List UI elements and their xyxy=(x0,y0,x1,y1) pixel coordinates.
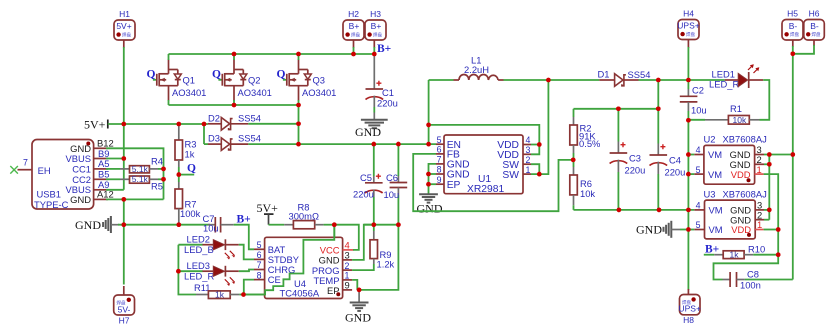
wire staircase VCC to R11 xyxy=(244,225,335,295)
wire 5V+ to D3 branch xyxy=(203,124,205,144)
wire R9 to PROG xyxy=(352,264,374,270)
pin 9 EP xyxy=(436,183,444,185)
wire H4 to UPS+ rail xyxy=(687,47,689,80)
svg-text:B9: B9 xyxy=(98,148,109,159)
capacitor C3 220u xyxy=(610,109,646,210)
wire UPS+ drop to R2 line xyxy=(657,80,659,109)
svg-text:SW: SW xyxy=(502,170,519,181)
wire LED3 to CHRG xyxy=(239,270,254,272)
pin 5 BAT xyxy=(254,248,265,250)
svg-text:UPS+: UPS+ xyxy=(678,304,700,314)
svg-text:H1: H1 xyxy=(119,9,130,19)
svg-text:B+: B+ xyxy=(371,21,382,31)
diode D3 SS54 xyxy=(208,133,261,151)
node 5V+ port left xyxy=(84,117,108,131)
wire VM column xyxy=(687,120,689,229)
wire B+ to BAT xyxy=(234,225,254,250)
svg-text:H6: H6 xyxy=(809,9,820,19)
svg-text:H8: H8 xyxy=(683,315,694,325)
svg-text:VBUS: VBUS xyxy=(65,153,91,164)
wire R2 C3 C4 top line xyxy=(574,108,659,110)
wire gnd pins column xyxy=(768,155,770,220)
svg-text:C5: C5 xyxy=(360,172,372,183)
wire CE to R11 node xyxy=(244,280,254,295)
pin 2 PROG xyxy=(343,269,353,271)
svg-text:B+: B+ xyxy=(349,21,360,31)
wire GND rail left xyxy=(118,224,210,226)
svg-text:GND: GND xyxy=(345,311,371,325)
svg-text:2: 2 xyxy=(526,155,531,165)
svg-text:VM: VM xyxy=(708,169,722,180)
svg-text:D1: D1 xyxy=(598,68,610,79)
svg-text:Q2: Q2 xyxy=(248,75,261,86)
svg-text:9: 9 xyxy=(345,280,350,291)
capacitor C7 10u xyxy=(203,213,234,234)
resistor R8 300mOhm xyxy=(269,201,335,229)
svg-text:1: 1 xyxy=(757,219,762,230)
ground GND u1 xyxy=(417,194,443,215)
svg-text:B+: B+ xyxy=(705,243,719,255)
ic U3 XB7608AJ xyxy=(694,189,767,239)
svg-text:1k: 1k xyxy=(730,250,740,260)
svg-text:7: 7 xyxy=(257,260,262,270)
pin 2 SW xyxy=(523,163,531,165)
svg-text:8: 8 xyxy=(437,165,442,175)
svg-text:1.2k: 1.2k xyxy=(377,259,395,270)
capacitor C6 10u xyxy=(384,144,408,225)
ic U4 TC4056A xyxy=(254,237,354,298)
svg-text:EH: EH xyxy=(38,165,51,176)
pin 4 VM xyxy=(694,154,704,156)
svg-text:焊盘: 焊盘 xyxy=(790,31,799,38)
svg-text:LED_B: LED_B xyxy=(184,244,214,255)
svg-text:1: 1 xyxy=(757,164,762,175)
inductor L1 2.2uH xyxy=(429,55,549,81)
svg-text:10u: 10u xyxy=(691,105,707,116)
led LED2 LED_B xyxy=(184,234,239,260)
svg-text:UPS+: UPS+ xyxy=(677,20,699,30)
svg-text:C6: C6 xyxy=(386,172,398,183)
svg-text:GND: GND xyxy=(636,223,662,237)
wire U2 vm5 xyxy=(688,173,694,175)
svg-text:Q: Q xyxy=(147,68,156,80)
wire VBUS B9 xyxy=(106,158,124,160)
wire LED anode rail xyxy=(178,244,202,246)
wire B12 GND to riser xyxy=(106,148,164,199)
flag H3 B+ xyxy=(365,9,386,48)
pin 8 CE xyxy=(254,279,265,281)
pin B5 xyxy=(94,178,108,180)
capacitor C8 100n xyxy=(723,269,761,291)
svg-text:6: 6 xyxy=(437,145,442,155)
wire D3 cathode rail VIN xyxy=(248,143,436,145)
wire VDD3 xyxy=(531,145,539,155)
transistor Q1 AO3401 xyxy=(147,54,207,105)
wire H8 column xyxy=(687,230,689,291)
wire LED2 to STDBY xyxy=(239,245,254,260)
svg-text:100k: 100k xyxy=(180,208,201,219)
svg-text:5V+: 5V+ xyxy=(116,21,131,31)
svg-text:A5: A5 xyxy=(98,158,109,169)
pin 1 SW xyxy=(523,173,531,175)
ground GND u4 xyxy=(345,290,371,325)
svg-text:D3: D3 xyxy=(208,133,220,144)
svg-text:GND: GND xyxy=(355,125,381,139)
wire SW1 to SW column xyxy=(531,80,548,174)
svg-text:7: 7 xyxy=(437,155,442,165)
wire U3 vdd xyxy=(764,229,779,231)
wire GND line C5 R9 C6 pin3 xyxy=(364,224,398,226)
pin 4 VM xyxy=(694,209,704,211)
flag H1 5V+ xyxy=(114,9,135,48)
svg-text:TYPE-C: TYPE-C xyxy=(34,199,69,210)
wire TEMP to EP node xyxy=(352,280,357,290)
capacitor C2 10u xyxy=(680,80,707,120)
wire B- column xyxy=(792,54,794,280)
pin 5 EN xyxy=(436,143,444,145)
ic U2 XB7608AJ xyxy=(694,134,767,185)
svg-text:1k: 1k xyxy=(185,149,195,160)
pin 4 VDD xyxy=(523,144,531,146)
pin 8 GND xyxy=(436,173,444,175)
svg-text:H2: H2 xyxy=(348,9,359,19)
wire U3 vm5 xyxy=(688,229,694,231)
svg-text:R4: R4 xyxy=(151,156,163,167)
wire C8 to B- xyxy=(745,279,793,281)
wire U3 gnd pins xyxy=(764,209,769,211)
resistor R11 1k xyxy=(194,282,246,299)
flag H2 B+ xyxy=(343,9,364,48)
flag H5 B- xyxy=(782,9,803,48)
wire B+ top rail xyxy=(169,53,375,55)
svg-text:H7: H7 xyxy=(119,316,130,326)
svg-text:Q: Q xyxy=(277,68,286,80)
resistor R7 100k xyxy=(175,175,201,225)
wire SW node to D1 xyxy=(548,79,599,81)
svg-text:10u: 10u xyxy=(384,189,400,200)
svg-text:C4: C4 xyxy=(669,155,681,166)
resistor R4 5.1k xyxy=(106,156,166,174)
svg-text:5V+: 5V+ xyxy=(257,201,279,215)
wire 5V+ row xyxy=(108,123,208,125)
wire UPS+ rail xyxy=(639,79,725,81)
diode D2 SS54 xyxy=(208,112,261,130)
pin A5 xyxy=(94,168,108,170)
pin B12 xyxy=(94,147,108,149)
wire FB wrap to divider xyxy=(413,154,573,211)
svg-text:220u: 220u xyxy=(377,98,398,109)
svg-text:3: 3 xyxy=(345,250,350,261)
wire U2 vdd down xyxy=(764,174,779,255)
wire U2 vm4 xyxy=(688,154,694,156)
svg-text:9: 9 xyxy=(437,175,442,185)
svg-text:U3: U3 xyxy=(704,189,716,200)
svg-text:VM: VM xyxy=(709,224,723,235)
pin 3 GND xyxy=(343,259,353,261)
svg-text:8: 8 xyxy=(257,270,262,280)
svg-text:AO3401: AO3401 xyxy=(238,87,272,98)
svg-text:C2: C2 xyxy=(692,85,704,96)
resistor R2 91K 0.5% xyxy=(570,109,601,160)
pin 2 GND xyxy=(755,219,764,221)
svg-text:H3: H3 xyxy=(370,9,381,19)
ground GND c1 xyxy=(355,120,388,139)
pin 5 VM xyxy=(694,229,704,231)
svg-text:焊盘: 焊盘 xyxy=(812,31,821,38)
wire H3 stub xyxy=(373,47,375,54)
led LED1 LED_R xyxy=(709,64,763,89)
capacitor C1 220u xyxy=(366,56,398,120)
wire VIN to EN xyxy=(428,80,430,144)
led LED3 LED_R xyxy=(184,260,239,286)
svg-text:B+: B+ xyxy=(377,43,391,55)
resistor R1 10k xyxy=(688,103,759,125)
wire VDD wrap to C8 xyxy=(714,255,779,280)
svg-text:VDD: VDD xyxy=(731,224,751,235)
svg-text:CE: CE xyxy=(268,274,281,285)
svg-text:Q1: Q1 xyxy=(183,75,196,86)
svg-text:焊盘: 焊盘 xyxy=(686,31,695,38)
svg-text:焊盘: 焊盘 xyxy=(351,31,360,38)
svg-text:10u: 10u xyxy=(203,223,219,234)
capacitor C4 220u xyxy=(650,109,686,210)
pin B9 xyxy=(94,158,108,160)
pin 1 VDD xyxy=(755,173,764,175)
wire A12 GND xyxy=(106,198,164,200)
pin 2 GND xyxy=(755,163,764,165)
svg-text:10k: 10k xyxy=(580,188,595,199)
svg-text:Q: Q xyxy=(187,163,196,175)
svg-text:220u: 220u xyxy=(353,189,374,200)
svg-text:3: 3 xyxy=(526,145,531,155)
transistor Q3 AO3401 xyxy=(277,54,337,105)
svg-text:EP: EP xyxy=(327,285,340,296)
svg-text:TC4056A: TC4056A xyxy=(280,288,320,299)
svg-text:Q3: Q3 xyxy=(313,75,326,86)
svg-text:7: 7 xyxy=(23,158,28,168)
wire VBUS column B9-A9 xyxy=(123,124,125,190)
pin 6 STDBY xyxy=(254,258,265,260)
svg-text:5: 5 xyxy=(696,165,701,175)
svg-text:B-: B- xyxy=(789,21,798,31)
pin A12 xyxy=(94,198,108,200)
flag H6 B- xyxy=(804,9,825,47)
svg-text:5.1k: 5.1k xyxy=(132,174,149,184)
svg-text:LED2: LED2 xyxy=(187,234,210,245)
diode D1 SS54 xyxy=(598,68,651,86)
wire staircase overlay xyxy=(244,225,335,295)
node Q label xyxy=(177,163,197,177)
wire U4 GND pin3 riser xyxy=(352,225,374,260)
ground GND usb xyxy=(75,216,119,233)
svg-text:1k: 1k xyxy=(215,289,225,299)
svg-text:5: 5 xyxy=(696,220,701,230)
svg-text:EP: EP xyxy=(447,180,461,191)
resistor R5 5.1k xyxy=(106,174,166,191)
wire H2 stub xyxy=(353,47,355,54)
svg-text:C3: C3 xyxy=(629,153,641,164)
pin 4 VCC xyxy=(343,249,354,251)
svg-text:U2: U2 xyxy=(704,134,716,145)
svg-text:5V-: 5V- xyxy=(118,305,131,315)
svg-text:VM: VM xyxy=(708,149,722,160)
svg-text:5.1k: 5.1k xyxy=(132,164,149,174)
pin 3 VDD xyxy=(523,153,531,155)
svg-text:AO3401: AO3401 xyxy=(172,87,206,98)
flag H7 5V- xyxy=(114,286,135,326)
svg-text:H4: H4 xyxy=(683,9,694,19)
wire H5 stub xyxy=(792,46,794,54)
pin 7 CHRG xyxy=(254,269,265,271)
svg-text:CC2: CC2 xyxy=(72,174,91,185)
connector USB1 TYPE-C xyxy=(10,138,113,210)
capacitor C5 220u xyxy=(353,144,383,225)
svg-text:SS54: SS54 xyxy=(628,69,651,80)
resistor R6 10k xyxy=(570,160,596,210)
svg-text:220u: 220u xyxy=(625,165,646,176)
wire Q source rail xyxy=(169,104,299,106)
pin 5 VM xyxy=(694,173,704,175)
svg-text:GND: GND xyxy=(75,218,101,232)
svg-text:焊盘: 焊盘 xyxy=(373,31,382,38)
wire GND column to rail xyxy=(123,199,125,284)
svg-text:C1: C1 xyxy=(382,87,394,98)
pin A9 xyxy=(94,189,108,191)
pin 1 TEMP xyxy=(343,279,353,281)
svg-text:VM: VM xyxy=(709,205,723,216)
svg-text:R10: R10 xyxy=(748,244,765,255)
svg-text:300mΩ: 300mΩ xyxy=(289,211,319,222)
resistor R9 1.2k xyxy=(370,225,395,270)
svg-text:5: 5 xyxy=(257,240,262,250)
wire A9 xyxy=(106,189,124,191)
svg-text:B5: B5 xyxy=(98,169,109,180)
pin 7 GND xyxy=(436,163,444,165)
svg-text:XB7608AJ: XB7608AJ xyxy=(723,134,767,145)
svg-text:AO3401: AO3401 xyxy=(302,87,336,98)
wire H1 to 5V+ node xyxy=(123,47,125,124)
svg-text:B+: B+ xyxy=(237,214,251,226)
svg-text:D2: D2 xyxy=(208,112,220,123)
svg-text:4: 4 xyxy=(526,135,531,145)
svg-text:5: 5 xyxy=(437,135,442,145)
svg-text:H5: H5 xyxy=(787,9,798,19)
svg-text:VDD: VDD xyxy=(731,169,751,180)
flag H4 UPS+ xyxy=(677,9,699,49)
junction dots overlay xyxy=(122,52,796,297)
svg-text:220u: 220u xyxy=(665,167,686,178)
pin 7 EH shield xyxy=(18,169,33,171)
node EP junction xyxy=(357,288,362,293)
svg-text:0.5%: 0.5% xyxy=(579,138,600,149)
resistor R10 1k xyxy=(704,244,778,260)
svg-text:10k: 10k xyxy=(733,115,747,125)
wire VDD branch xyxy=(429,125,540,145)
svg-text:CC1: CC1 xyxy=(72,163,91,174)
wire R8 out to VCC xyxy=(334,225,359,250)
flag H8 UPS+ xyxy=(678,289,700,325)
svg-text:XB7608AJ: XB7608AJ xyxy=(723,189,767,200)
svg-text:B-: B- xyxy=(810,21,819,31)
ic U1 XR2981 xyxy=(436,135,531,195)
ground GND u3 area xyxy=(636,221,688,238)
svg-text:5V+: 5V+ xyxy=(84,117,106,131)
svg-text:4: 4 xyxy=(696,145,701,155)
svg-text:100n: 100n xyxy=(740,280,761,291)
svg-text:焊盘: 焊盘 xyxy=(122,31,131,38)
svg-text:R1: R1 xyxy=(730,103,742,114)
svg-text:LED_R: LED_R xyxy=(184,271,214,282)
wire LED1 cathode down to R1 xyxy=(760,80,770,120)
svg-text:GND: GND xyxy=(70,194,91,205)
wire U1 gnd pins xyxy=(429,164,437,194)
svg-text:1: 1 xyxy=(526,165,531,175)
node 5V+ port at R8 xyxy=(257,201,279,225)
wire C6 column to EP node xyxy=(359,225,398,290)
pin 3 GND xyxy=(755,154,764,156)
svg-text:R5: R5 xyxy=(151,181,163,192)
svg-text:4: 4 xyxy=(696,201,701,211)
wire U2 gnd pins to B- xyxy=(764,154,793,156)
wire D2 cathode to node xyxy=(248,123,298,125)
svg-text:SS54: SS54 xyxy=(238,112,261,123)
pin 3 GND xyxy=(755,209,764,211)
wire GND line right xyxy=(574,209,695,211)
svg-text:2.2uH: 2.2uH xyxy=(464,64,489,75)
svg-text:C8: C8 xyxy=(747,269,759,280)
pin 1 VDD xyxy=(755,229,763,231)
svg-text:2: 2 xyxy=(345,261,350,271)
wire H6 to B- column xyxy=(793,45,814,54)
svg-text:Q: Q xyxy=(212,68,221,80)
wire SW2 xyxy=(531,164,539,174)
pin 6 FB xyxy=(436,153,444,155)
resistor R3 1k xyxy=(175,124,196,175)
svg-text:GND: GND xyxy=(417,202,443,216)
pin 9 EP xyxy=(343,289,353,291)
svg-text:XR2981: XR2981 xyxy=(467,184,504,195)
svg-text:6: 6 xyxy=(257,250,262,260)
wire Q3 column xyxy=(298,105,300,144)
svg-text:LED3: LED3 xyxy=(187,260,210,271)
transistor Q2 AO3401 xyxy=(212,54,272,105)
svg-text:SS54: SS54 xyxy=(238,133,261,144)
